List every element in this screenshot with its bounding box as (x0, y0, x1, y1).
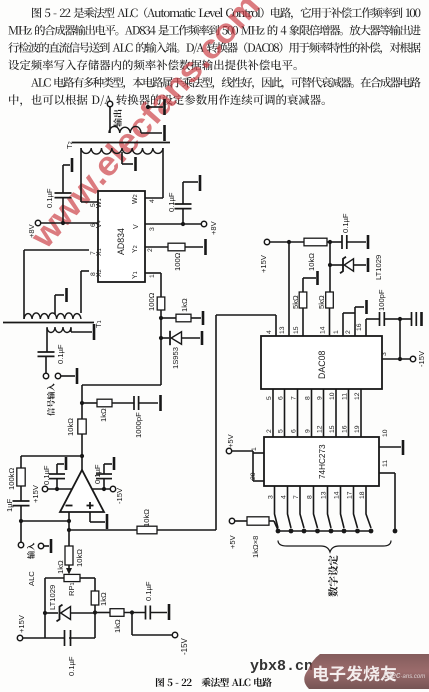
node junction (55, 487, 59, 491)
wire (384, 318, 400, 320)
label 数字设定 (328, 555, 338, 596)
svg-text:0.1µF: 0.1µF (341, 213, 350, 233)
label plus input (87, 505, 94, 507)
capacitor C12 bypass (411, 312, 413, 326)
wire minus input column (68, 512, 70, 546)
ground (367, 235, 370, 249)
document text line 4 (8, 60, 296, 71)
svg-text:13: 13 (279, 326, 286, 334)
resistor R3 1k (176, 314, 191, 322)
wire feedback to DAC (69, 529, 137, 531)
wire (21, 520, 69, 522)
resistor R12 5k (326, 292, 334, 308)
transformer T2 core (72, 142, 170, 144)
capacitor C3 0.1uF (175, 203, 192, 205)
wire (56, 479, 58, 489)
node junction (130, 610, 134, 614)
svg-text:13: 13 (321, 491, 328, 499)
wire (303, 277, 316, 279)
svg-text:+8V: +8V (27, 223, 36, 238)
svg-text:LT1029: LT1029 (48, 585, 57, 610)
svg-text:1µF: 1µF (5, 498, 14, 512)
svg-text:6: 6 (291, 429, 298, 433)
svg-text:100Ω: 100Ω (173, 252, 182, 271)
potentiometer RP1 (64, 574, 80, 581)
svg-text:11: 11 (342, 393, 349, 400)
wire (112, 402, 134, 404)
node junction (328, 240, 332, 244)
node junction (93, 610, 97, 614)
ground (316, 271, 319, 285)
svg-text:1: 1 (333, 330, 340, 334)
svg-text:Y1: Y1 (132, 271, 139, 279)
ground (168, 604, 171, 620)
ground (65, 457, 68, 470)
node +15V terminal (42, 486, 47, 491)
svg-text:X2: X2 (96, 269, 103, 277)
svg-text:3: 3 (381, 352, 388, 356)
wire (252, 451, 254, 481)
resistor R13 5k (299, 292, 307, 308)
svg-text:LT1029: LT1029 (374, 255, 383, 280)
capacitor C10 0.1uF (341, 235, 343, 249)
svg-text:16: 16 (356, 323, 363, 331)
wire DAC to register bus (272, 389, 274, 437)
wire (161, 317, 176, 319)
svg-text:74HC273: 74HC273 (318, 444, 327, 479)
resistor R7 10k (137, 526, 157, 534)
node ground dot of output (146, 105, 150, 109)
document text line 1 (32, 7, 420, 19)
svg-text:1S953: 1S953 (171, 347, 180, 369)
capacitor C9 0.1uF (145, 606, 147, 620)
svg-text:20: 20 (250, 472, 257, 480)
ground (159, 395, 162, 411)
wire (182, 182, 184, 204)
svg-text:100Ω: 100Ω (147, 292, 156, 311)
node junction (398, 317, 402, 321)
svg-text:+15V: +15V (31, 484, 40, 503)
wire digital set bus (278, 530, 371, 532)
op-amp U1 AD834 multiplier (98, 191, 145, 282)
svg-text:1kΩ: 1kΩ (99, 408, 108, 422)
svg-text:Y2: Y2 (132, 245, 139, 253)
svg-text:5: 5 (266, 396, 273, 400)
document text line 5 (31, 77, 421, 89)
resistor R6 100k (17, 468, 25, 486)
svg-text:AD834: AD834 (116, 228, 126, 255)
label 信号输入 (47, 383, 55, 416)
ground (71, 158, 74, 172)
svg-text:6: 6 (278, 396, 285, 400)
wire (148, 106, 163, 108)
wire pin11 (379, 472, 395, 474)
ground (204, 239, 207, 255)
wire pin7 X1 (24, 249, 89, 251)
ground (113, 457, 116, 470)
op-amp U3 DAC08 (261, 336, 382, 389)
wire (62, 165, 64, 193)
ground (65, 288, 68, 302)
document text line 3 (8, 42, 420, 54)
zener D3 LT1029 (340, 257, 346, 273)
wire (20, 506, 22, 542)
wire T2 center tap (121, 152, 123, 164)
svg-text:10kΩ: 10kΩ (75, 549, 84, 567)
svg-text:0.1µF: 0.1µF (45, 188, 54, 208)
svg-text:DAC08: DAC08 (317, 351, 327, 379)
svg-text:14: 14 (320, 326, 327, 334)
node junction (67, 528, 71, 532)
svg-text:100kΩ: 100kΩ (7, 468, 16, 490)
wire pin14 (329, 308, 331, 336)
ground (365, 300, 368, 314)
svg-text:0.1µF: 0.1µF (144, 581, 153, 601)
wire (20, 486, 22, 501)
node -15V terminal (110, 486, 115, 491)
svg-text:5: 5 (90, 203, 97, 207)
zener D2 LT1029 (57, 605, 63, 622)
node junction (19, 519, 23, 523)
ground (201, 331, 204, 345)
wire (131, 613, 133, 636)
node (393, 529, 398, 534)
svg-text:W2: W2 (132, 194, 139, 204)
transformer T1 core (3, 322, 94, 324)
ground (202, 311, 205, 325)
wire pin10 (379, 446, 401, 448)
node +5V terminal pullup (229, 518, 234, 523)
svg-text:0.1µF: 0.1µF (56, 344, 65, 364)
wire (71, 612, 96, 614)
wire (103, 479, 105, 489)
node junction (398, 357, 402, 361)
wire (80, 577, 95, 579)
wire (182, 209, 184, 224)
wire (103, 464, 105, 474)
svg-text:12: 12 (317, 425, 324, 433)
wire (162, 148, 164, 198)
op-amp U2 (60, 470, 104, 512)
wire (21, 455, 82, 457)
resistor R14 1kx8 network (247, 517, 269, 525)
svg-text:1kΩ: 1kΩ (99, 592, 108, 606)
inductor T1 primary winding (47, 327, 71, 333)
capacitor C6 0.1uF (49, 473, 65, 475)
resistor R10 1k (110, 609, 124, 617)
wire (354, 264, 367, 266)
wire (92, 488, 110, 490)
wire (44, 545, 49, 547)
wire (269, 520, 274, 522)
wire pin1 Y1 (145, 272, 161, 274)
wire (185, 246, 203, 248)
svg-text:2: 2 (266, 429, 273, 433)
node ALC ground terminal (38, 543, 43, 548)
resistor R9 1k (91, 591, 99, 605)
wire (347, 241, 366, 243)
node junction (159, 316, 163, 320)
inductor T2 primary winding (109, 126, 141, 133)
capacitor C4 1000pF (133, 396, 135, 410)
capacitor C5 1uF (13, 500, 30, 502)
wire (161, 337, 169, 339)
wire (327, 241, 342, 243)
svg-text:+5V: +5V (226, 433, 235, 448)
wire (48, 488, 72, 490)
svg-text:1kΩ: 1kΩ (56, 560, 65, 574)
inductor T2 secondary winding (81, 148, 163, 154)
wire (157, 529, 216, 531)
node junction (328, 263, 332, 267)
node junction (80, 401, 84, 405)
svg-text:W1: W1 (96, 198, 103, 208)
svg-text:10: 10 (382, 429, 389, 437)
node wiper arrow (66, 568, 72, 575)
document text line 2 (8, 25, 420, 36)
wire (46, 328, 48, 352)
inductor T1 secondary winding (24, 313, 81, 319)
node +15V terminal DAC (264, 239, 269, 244)
wire (232, 450, 253, 452)
svg-text:0.1µF: 0.1µF (167, 192, 176, 212)
node -15V terminal (410, 356, 415, 361)
wire (45, 612, 58, 614)
ground (163, 125, 166, 141)
wire (80, 148, 82, 202)
node ALC input terminal (18, 542, 23, 547)
svg-text:5kΩ: 5kΩ (291, 295, 300, 309)
ground (106, 514, 109, 529)
svg-text:1kΩ×8: 1kΩ×8 (251, 536, 260, 558)
wire (23, 637, 64, 639)
svg-text:-15V: -15V (115, 487, 124, 504)
wire (62, 198, 64, 223)
wire (191, 317, 201, 319)
wire pin16 (365, 319, 367, 336)
ground (50, 539, 53, 553)
wire (82, 402, 97, 404)
resistor R8 10k (65, 546, 73, 565)
svg-text:+5V: +5V (228, 534, 237, 549)
node junction (181, 222, 185, 226)
wire (69, 637, 95, 639)
wire plus input to ground (89, 512, 91, 522)
node +8V right terminal (201, 221, 206, 226)
svg-text:0.1µF: 0.1µF (67, 656, 76, 676)
resistor R1 100ohm (168, 243, 185, 251)
node bus dots (276, 529, 281, 534)
svg-text:5kΩ: 5kΩ (317, 295, 326, 309)
node input ground terminal (55, 373, 60, 378)
svg-text:10kΩ: 10kΩ (307, 253, 316, 271)
label output 输出 (113, 110, 122, 127)
node junction (43, 611, 47, 615)
svg-text:2: 2 (147, 248, 154, 252)
ground (76, 368, 79, 384)
node output terminal (107, 101, 112, 106)
wire pin13 (288, 242, 290, 336)
wire (124, 612, 145, 614)
wire (81, 434, 83, 456)
svg-text:4: 4 (281, 495, 288, 499)
svg-text:+15V: +15V (259, 254, 268, 273)
node +8V left terminal (35, 220, 40, 225)
svg-text:V: V (133, 224, 140, 229)
ground (367, 258, 370, 272)
node digital set brace (278, 541, 391, 553)
svg-text:8: 8 (307, 495, 314, 499)
node junction (287, 240, 291, 244)
wire (182, 337, 200, 339)
svg-text:4: 4 (266, 330, 273, 334)
wire Y1 column (160, 310, 162, 385)
ground (134, 157, 137, 171)
wire (399, 319, 401, 359)
wire (330, 264, 343, 266)
wire (151, 612, 168, 614)
svg-text:2: 2 (345, 330, 352, 334)
wire (45, 577, 64, 579)
node junction (67, 519, 71, 523)
ground (420, 312, 423, 326)
wire pin2 Y2 (145, 246, 168, 248)
label ALC input (0, 0, 1, 1)
node +15V bottom terminal (17, 635, 22, 640)
document text line 6 (9, 94, 325, 106)
svg-text:1: 1 (149, 274, 156, 278)
node junction (61, 221, 65, 225)
diode D1 1S953 (169, 331, 171, 345)
capacitor C8 0.1uF (64, 630, 66, 646)
wire (141, 132, 162, 134)
wire (61, 375, 75, 377)
ground (199, 175, 202, 191)
svg-text:-15V: -15V (180, 637, 189, 655)
resistor R2 100ohm (157, 297, 165, 310)
wire pin8 X2 (81, 270, 89, 272)
wire (70, 328, 72, 332)
svg-text:18: 18 (359, 491, 366, 499)
svg-text:10: 10 (329, 392, 336, 400)
capacitor C11 100pF (379, 312, 381, 326)
ground (402, 440, 405, 455)
wire (82, 384, 161, 386)
wire (270, 241, 304, 243)
op-amp U4 74HC273 register (264, 437, 379, 486)
svg-text:+15V: +15V (17, 614, 26, 633)
svg-text:19: 19 (354, 425, 361, 433)
wire (329, 242, 331, 265)
resistor R4 1k (97, 399, 112, 407)
svg-text:3: 3 (268, 495, 275, 499)
wire (56, 464, 58, 474)
node +5V terminal (226, 448, 231, 453)
svg-text:7: 7 (90, 251, 97, 255)
capacitor C7 0.1uF (96, 473, 112, 475)
caption 图5-22 乘法型ALC电路 (156, 678, 272, 687)
svg-text:7: 7 (291, 396, 298, 400)
svg-text:16: 16 (342, 425, 349, 433)
wire pin3 to +8V right (145, 223, 201, 225)
wire (45, 356, 47, 373)
svg-text:3: 3 (149, 227, 156, 231)
svg-text:ybx8.cn: ybx8.cn (250, 658, 313, 675)
svg-text:V+: V+ (96, 220, 103, 228)
svg-text:9: 9 (305, 429, 312, 433)
svg-text:0.1µF: 0.1µF (42, 465, 51, 485)
resistor R5 10k (78, 419, 86, 434)
wire (235, 520, 247, 522)
wire (139, 402, 158, 404)
svg-text:1kΩ: 1kΩ (113, 619, 122, 633)
svg-text:12: 12 (354, 392, 361, 400)
svg-text:17: 17 (347, 491, 354, 499)
ground (163, 99, 166, 115)
svg-text:-15V: -15V (417, 350, 426, 367)
svg-text:1: 1 (251, 447, 258, 451)
node signal input terminal (43, 373, 48, 378)
wire (329, 265, 331, 292)
wire +8V rail to pin6 (41, 222, 98, 224)
wire op-amp output (81, 456, 83, 470)
wire T1 center tap (54, 295, 56, 314)
svg-text:0.1µF: 0.1µF (93, 464, 102, 484)
wire (400, 318, 412, 320)
svg-text:15: 15 (293, 326, 300, 334)
ground (93, 324, 96, 340)
wire (95, 612, 110, 614)
wire (94, 605, 96, 638)
svg-text:8: 8 (305, 396, 312, 400)
svg-text:14: 14 (334, 491, 341, 499)
wire pin15 (302, 308, 304, 336)
wire pin3 to -15V (382, 358, 410, 360)
wire (109, 106, 111, 133)
wire wiper (68, 565, 70, 569)
svg-text:+8V: +8V (209, 220, 218, 235)
capacitor C1 0.1uF (55, 192, 72, 194)
svg-text:4: 4 (149, 199, 156, 203)
svg-text:10kΩ: 10kΩ (66, 418, 75, 436)
node -15V bottom terminal (172, 632, 177, 637)
capacitor C2 0.1uF input coupling (38, 351, 55, 353)
svg-text:X1: X1 (96, 248, 103, 256)
svg-text:7: 7 (293, 495, 300, 499)
svg-text:9: 9 (317, 396, 324, 400)
svg-text:11: 11 (382, 460, 389, 467)
svg-text:100pF: 100pF (377, 289, 386, 311)
wire pin1 pin2 to ground (342, 313, 344, 336)
node junction (102, 487, 106, 491)
resistor R11 10k (304, 238, 327, 246)
svg-text:1000pF: 1000pF (134, 412, 143, 438)
svg-text:8: 8 (90, 272, 97, 276)
svg-text:ALC: ALC (27, 571, 36, 586)
node junction (159, 336, 163, 340)
svg-text:10kΩ: 10kΩ (142, 509, 151, 527)
label minus input (66, 505, 73, 507)
node junction op-amp output (80, 454, 84, 458)
svg-text:5: 5 (278, 429, 285, 433)
svg-text:15: 15 (329, 425, 336, 433)
svg-text:1kΩ: 1kΩ (180, 298, 189, 312)
wire register outputs to digital set bus (275, 486, 279, 528)
